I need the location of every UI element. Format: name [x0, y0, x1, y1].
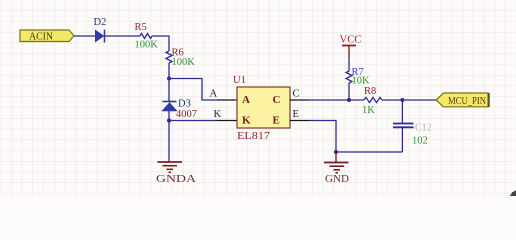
resistor R5: [135, 22, 159, 51]
resistor R6: [166, 48, 195, 69]
power VCC: [340, 35, 362, 72]
svg-text:4007: 4007: [176, 109, 197, 120]
wire pin E down: [309, 121, 336, 153]
junction node (branch to pin A): [167, 77, 171, 81]
diode D3: [163, 99, 198, 121]
corner mark: [510, 191, 516, 197]
svg-text:MCU_PIN: MCU_PIN: [448, 96, 486, 107]
junction node (ground/cap): [334, 150, 338, 154]
svg-text:GNDA: GNDA: [156, 173, 196, 185]
junction node (capacitor branch): [400, 98, 404, 102]
junction node (branch to pin K): [167, 119, 171, 123]
wire branch to pin A: [169, 79, 217, 101]
wire R6 down to D3: [168, 63, 170, 102]
svg-text:GND: GND: [325, 173, 349, 185]
capacitor C12: [393, 100, 432, 152]
wire R8 to port: [382, 99, 436, 101]
pin C stub: [290, 99, 309, 101]
svg-text:C: C: [293, 89, 300, 100]
svg-text:R5: R5: [135, 22, 147, 33]
ground GNDA: [156, 162, 196, 185]
svg-text:A: A: [242, 94, 250, 106]
resistor R7: [346, 67, 370, 87]
ground GND: [324, 152, 349, 185]
svg-text:C12: C12: [415, 123, 432, 134]
svg-text:1K: 1K: [362, 105, 375, 116]
pin K stub: [217, 120, 237, 122]
opto-coupler U1: [233, 75, 290, 142]
svg-text:10K: 10K: [352, 76, 371, 87]
wire D2 to R5: [105, 35, 141, 37]
svg-text:102: 102: [412, 136, 428, 147]
wire R5 to R6: [152, 36, 169, 51]
wire branch to pin K: [169, 120, 217, 122]
port MCU_PIN: [436, 93, 489, 107]
pin A stub: [217, 99, 237, 101]
svg-text:ACIN: ACIN: [29, 32, 53, 43]
diode D2: [94, 17, 107, 43]
svg-text:K: K: [242, 115, 251, 127]
svg-text:C: C: [273, 94, 281, 106]
wire pin C to R8: [309, 99, 364, 101]
svg-text:100K: 100K: [135, 40, 159, 51]
svg-text:U1: U1: [233, 75, 246, 86]
wire R7 to junction: [348, 83, 350, 100]
svg-text:D3: D3: [178, 99, 191, 110]
junction node (R7 bottom): [347, 98, 351, 102]
svg-text:E: E: [273, 115, 280, 127]
wire port to D2: [74, 35, 96, 37]
svg-text:R8: R8: [364, 86, 376, 97]
wire to capacitor bottom: [336, 151, 402, 153]
svg-text:100K: 100K: [172, 57, 196, 68]
port ACIN: [20, 30, 74, 43]
pin E stub: [290, 120, 309, 122]
resistor R8: [362, 86, 382, 116]
svg-text:D2: D2: [94, 17, 107, 28]
svg-text:E: E: [293, 109, 299, 120]
svg-text:K: K: [214, 109, 222, 120]
svg-text:EL817: EL817: [237, 131, 270, 142]
wire D3 down to ground: [168, 111, 170, 162]
svg-text:VCC: VCC: [340, 35, 362, 46]
svg-text:A: A: [210, 89, 218, 100]
